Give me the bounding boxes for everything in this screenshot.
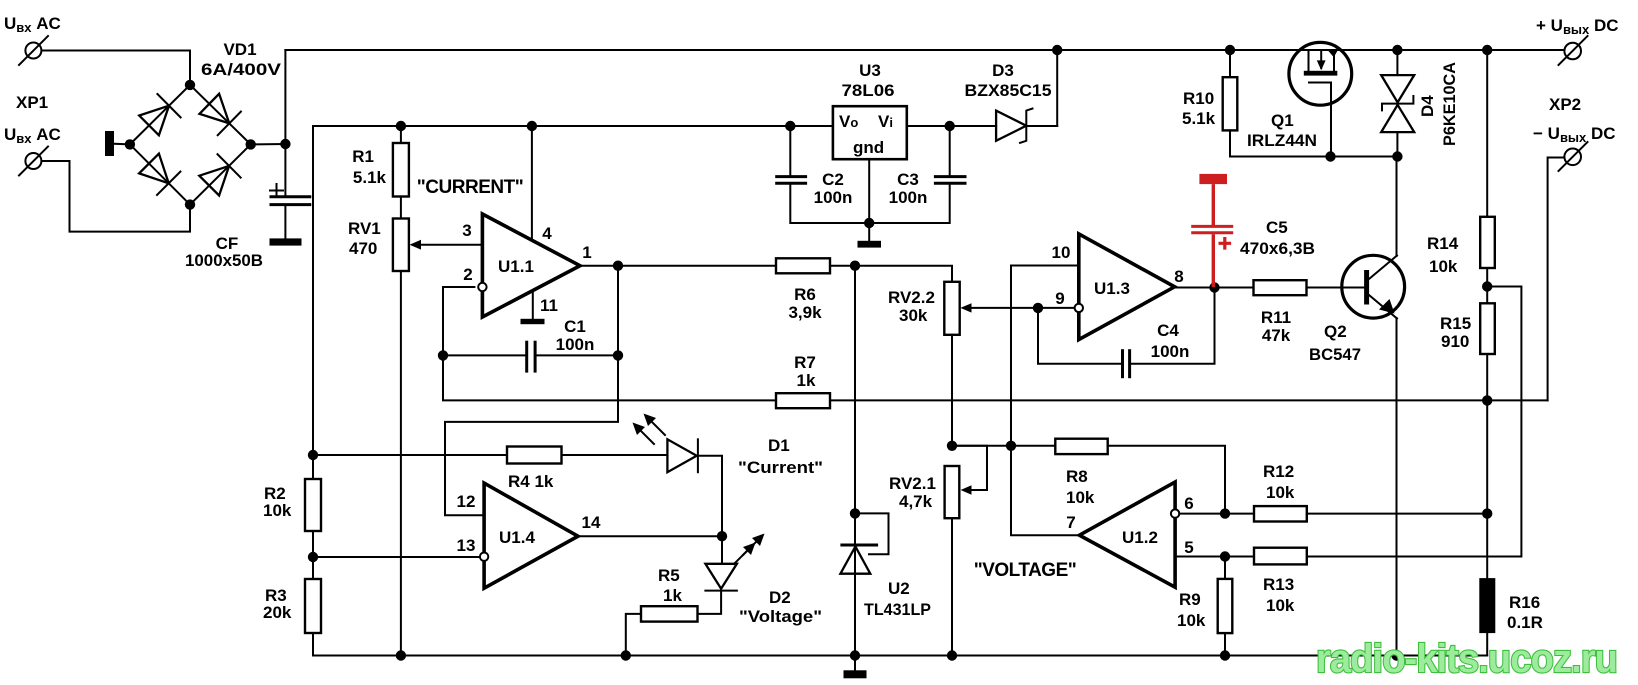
resistor R5 [626, 606, 698, 655]
svg-text:470: 470 [349, 239, 377, 258]
terminal bar at bridge left [105, 131, 114, 156]
U1.1 pin 11 stub and ground [521, 291, 545, 324]
svg-text:BZX85C15: BZX85C15 [965, 81, 1052, 100]
wire U1.1 output to R6 [580, 265, 776, 267]
svg-text:6: 6 [1184, 494, 1193, 513]
svg-text:R14: R14 [1427, 234, 1459, 253]
svg-text:470x6,3В: 470x6,3В [1240, 239, 1315, 258]
svg-text:5.1k: 5.1k [1182, 109, 1216, 128]
potentiometer RV2.2 [944, 282, 1038, 446]
junction RV1 at bottom rail [396, 650, 406, 660]
svg-text:U3: U3 [859, 61, 881, 80]
svg-text:radio-kits.ucoz.ru: radio-kits.ucoz.ru [1316, 637, 1617, 681]
junction R2 top [308, 450, 318, 460]
junction RV2.2 wiper / U1.3 pin9 [1033, 303, 1043, 313]
shunt resistor R16 (filled) [1479, 578, 1495, 655]
svg-text:2: 2 [463, 265, 472, 284]
svg-text:VD1: VD1 [223, 40, 256, 59]
MOSFET Q1 IRLZ44N [1289, 42, 1352, 156]
svg-text:Vo: Vo [839, 112, 858, 131]
potentiometer RV1 [393, 219, 421, 656]
wire U1.3 pin10 and riser to voltage-set node [1011, 266, 1079, 446]
wire RV1 wiper to U1.1 pin3 [418, 244, 482, 246]
svg-text:C4: C4 [1157, 321, 1179, 340]
junction pin6 node [1220, 508, 1230, 518]
svg-text:10k: 10k [1177, 611, 1206, 630]
svg-text:U1.4: U1.4 [499, 528, 535, 547]
svg-text:0.1R: 0.1R [1507, 613, 1543, 632]
connector XP1 pin 2 [19, 147, 48, 176]
junction R2/R3 [308, 552, 318, 562]
wire U1.2 pin5 to R13 [1175, 556, 1254, 558]
svg-text:Uвх AC: Uвх AC [4, 14, 61, 35]
junction RV2.1 top / voltage-set node [947, 441, 957, 451]
svg-text:C1: C1 [564, 317, 586, 336]
svg-text:XP2: XP2 [1549, 95, 1581, 114]
wire terminal bar to bridge left [114, 143, 126, 145]
wire bridge right to rail riser [251, 143, 286, 145]
wire R6 to RV2.2 top [830, 266, 952, 282]
svg-text:1k: 1k [797, 371, 816, 390]
VD1 diode (left-to-bottom) [139, 154, 180, 195]
shunt regulator U2 TL431 [840, 513, 888, 573]
TVS D4 P6KE10CA [1381, 50, 1414, 157]
wire divider tap to R13 [1307, 287, 1522, 557]
wire 78L06 gnd pin [868, 159, 870, 241]
resistor R11 [1254, 280, 1307, 295]
wire TL431 riser [854, 266, 856, 656]
svg-text:"VOLTAGE": "VOLTAGE" [974, 560, 1077, 581]
wire 78L06 Vi to D3 [907, 125, 996, 127]
svg-text:C3: C3 [897, 170, 919, 189]
svg-text:D2: D2 [769, 588, 791, 607]
wire U1.3 pin9 [1038, 307, 1075, 309]
wire pin2 node down to R7 line [443, 355, 776, 400]
capacitor C3 [869, 126, 966, 223]
junction U2 at bottom rail [850, 650, 860, 660]
junction D3 at top rail [1052, 45, 1062, 55]
svg-text:R6: R6 [794, 285, 816, 304]
capacitor C2 [775, 126, 869, 223]
wire R7 to output sense node [830, 399, 1548, 401]
svg-text:D1: D1 [768, 436, 790, 455]
resistor R2 [305, 455, 321, 557]
wire U1.1 pin2 loop [443, 287, 474, 355]
svg-text:6A/400V: 6A/400V [201, 60, 282, 79]
wire XP1 pin2 to bridge bottom [42, 161, 190, 232]
op-amp U1.4 [480, 483, 578, 588]
svg-text:100n: 100n [1151, 342, 1190, 361]
resistor R1 [393, 126, 409, 219]
wire D3 riser to top rail [1056, 50, 1058, 126]
svg-text:Vi: Vi [878, 112, 893, 131]
junction R1 top [396, 121, 406, 131]
wire R12 to current sense [1307, 513, 1487, 515]
wire R11 to Q2 base [1307, 287, 1365, 289]
junction R14 top rail [1482, 45, 1492, 55]
svg-text:R12: R12 [1263, 462, 1294, 481]
junction U1.2 pin7 riser [1006, 441, 1016, 451]
wire R4 to D1 [562, 454, 668, 456]
junction pin5 node [1220, 551, 1230, 561]
bridge rectifier VD1 [125, 80, 256, 210]
connector XP2 minus [1559, 142, 1588, 171]
VD1 diode (top-to-right) [200, 94, 241, 135]
VD1 diode (bottom-to-right) [199, 154, 240, 195]
svg-text:RV2.2: RV2.2 [888, 288, 935, 307]
svg-text:10: 10 [1052, 243, 1071, 262]
connector XP1 pin 1 [19, 36, 48, 65]
svg-text:RV2.1: RV2.1 [889, 474, 936, 493]
svg-text:P6KE10CA: P6KE10CA [1440, 62, 1459, 146]
junction R6 right / TL431 node [850, 261, 860, 271]
wire 6V rail (78L06 output rail) [313, 125, 833, 127]
ground (U2) [844, 656, 867, 679]
svg-text:R11: R11 [1261, 308, 1291, 327]
resistor R6 [776, 258, 830, 273]
wire U1.3 output to R11 [1175, 287, 1254, 289]
junction R15 bottom sense node [1482, 395, 1492, 405]
LED D1 "Current" [633, 414, 723, 537]
connector XP2 plus [1559, 36, 1588, 65]
wire riser to top rail [284, 50, 286, 144]
svg-text:R1: R1 [352, 147, 374, 166]
junction U1.1 pin4 rail [527, 121, 537, 131]
junction C3 top [945, 121, 955, 131]
junction D4 bottom / Q2 collector [1392, 151, 1402, 161]
svg-text:R15: R15 [1440, 314, 1471, 333]
wire gate line R10 to D4 bottom [1230, 156, 1397, 158]
junction bridge right [246, 139, 256, 149]
wire top rail [285, 49, 1564, 51]
resistor R14 [1480, 50, 1495, 303]
junction bridge left [125, 139, 135, 149]
svg-text:TL431LP: TL431LP [864, 600, 931, 619]
svg-text:R9: R9 [1179, 590, 1201, 609]
svg-text:10k: 10k [1429, 257, 1458, 276]
resistor R9 [1218, 557, 1233, 656]
wire U1.2 output pin7 [1011, 446, 1079, 535]
wire U1.1 output down-loop to U1.4 pin12 [445, 266, 618, 516]
svg-text:BC547: BC547 [1309, 345, 1361, 364]
svg-text:U1.3: U1.3 [1094, 279, 1130, 298]
junction TL431 ref [850, 508, 860, 518]
junction C1 right [613, 350, 623, 360]
resistor R13 [1254, 548, 1307, 565]
svg-text:5.1k: 5.1k [353, 168, 387, 187]
svg-text:7: 7 [1066, 513, 1075, 532]
resistor R15 [1480, 303, 1495, 578]
junction bridge bottom [185, 199, 195, 209]
wire R8 to U1.2 pin6 [1108, 446, 1225, 514]
svg-text:9: 9 [1055, 289, 1064, 308]
svg-text:20k: 20k [263, 603, 292, 622]
svg-text:U2: U2 [888, 579, 910, 598]
transistor Q2 BC547 [1342, 157, 1405, 656]
svg-text:IRLZ44N: IRLZ44N [1247, 131, 1317, 150]
wire U1.2 pin6 to R12 [1179, 513, 1254, 515]
wire U1.4 output [578, 535, 722, 537]
capacitor CF [270, 144, 312, 238]
svg-text:100n: 100n [889, 188, 928, 207]
svg-text:Q2: Q2 [1324, 322, 1347, 341]
junction D1/D2 node [717, 531, 727, 541]
svg-text:1: 1 [582, 243, 591, 262]
svg-text:R8: R8 [1066, 467, 1088, 486]
ground (CF) [270, 238, 302, 245]
potentiometer RV2.1 [945, 446, 987, 656]
junction R10 top rail [1225, 45, 1235, 55]
svg-text:R13: R13 [1263, 575, 1294, 594]
junction R5 at bottom rail [621, 650, 631, 660]
svg-text:D3: D3 [992, 61, 1014, 80]
zener D3 BZX85C15 [996, 109, 1057, 143]
resistor R4 [507, 447, 562, 464]
svg-text:D4: D4 [1418, 95, 1437, 117]
svg-text:1000x50В: 1000x50В [185, 251, 263, 270]
svg-text:R10: R10 [1183, 89, 1214, 108]
junction RV2.1 at bottom rail [947, 650, 957, 660]
svg-text:3: 3 [462, 221, 471, 240]
svg-text:1k: 1k [663, 586, 682, 605]
junction bridge top [185, 80, 195, 90]
svg-text:R7: R7 [794, 353, 816, 372]
resistor R8 [1055, 439, 1107, 454]
op-amp U1.1 [478, 214, 580, 317]
svg-text:47k: 47k [1262, 326, 1291, 345]
svg-text:RV1: RV1 [348, 219, 381, 238]
resistor R10 [1223, 50, 1238, 157]
svg-text:14: 14 [582, 513, 601, 532]
junction R9 at bottom rail [1220, 650, 1230, 660]
svg-text:C5: C5 [1266, 218, 1288, 237]
svg-text:11: 11 [540, 296, 558, 315]
svg-text:8: 8 [1174, 267, 1183, 286]
capacitor C5 (red) [1191, 174, 1233, 287]
svg-text:R4 1k: R4 1k [508, 472, 554, 491]
svg-text:10k: 10k [263, 501, 292, 520]
capacitor C1 [443, 341, 618, 373]
svg-text:C2: C2 [822, 170, 844, 189]
junction bridge output node [280, 139, 290, 149]
svg-text:Q1: Q1 [1271, 111, 1294, 130]
resistor R3 [305, 557, 1487, 656]
svg-text:5: 5 [1184, 538, 1193, 557]
svg-text:"Current": "Current" [738, 458, 823, 477]
regulator U3 78L06 [833, 106, 907, 159]
LED D2 "Voltage" [698, 534, 765, 614]
junction R14/R15 divider tap [1482, 281, 1492, 291]
op-amp U1.3 [1075, 234, 1175, 340]
svg-text:10k: 10k [1066, 488, 1095, 507]
ground (U3) [858, 241, 882, 248]
svg-text:U1.2: U1.2 [1122, 528, 1158, 547]
svg-text:R16: R16 [1509, 593, 1540, 612]
svg-text:12: 12 [457, 492, 476, 511]
junction C1 left [438, 350, 448, 360]
svg-text:R5: R5 [658, 566, 680, 585]
wire XP1 pin1 to bridge top [42, 51, 190, 85]
resistor R12 [1254, 506, 1307, 521]
wire U1.1 pin4 from rail [531, 126, 533, 241]
svg-text:910: 910 [1441, 332, 1469, 351]
svg-text:XP1: XP1 [16, 93, 48, 112]
svg-text:100n: 100n [814, 188, 853, 207]
svg-text:4: 4 [542, 224, 552, 243]
junction R12 right [1482, 508, 1492, 518]
svg-text:3,9k: 3,9k [788, 303, 822, 322]
junction U1.1 output [613, 261, 623, 271]
VD1 diode (left-to-top) [139, 94, 180, 135]
svg-text:30k: 30k [899, 306, 928, 325]
junction Q1 gate [1325, 151, 1335, 161]
wire XP2 minus to sense line [1548, 158, 1565, 401]
svg-text:10k: 10k [1266, 596, 1295, 615]
svg-text:10k: 10k [1266, 483, 1295, 502]
capacitor C4 feedback [1038, 288, 1215, 379]
junction Q2 emitter at bottom rail [1391, 650, 1401, 660]
op-amp U1.2 (mirrored) [1079, 482, 1179, 587]
svg-text:100n: 100n [556, 335, 595, 354]
wire R4 line from R2 top [313, 454, 507, 456]
junction gnd node [864, 218, 874, 228]
wire 6V rail left drop to R2 chain [312, 126, 314, 455]
wire R2/R3 node to U1.4 pin13 [313, 556, 479, 558]
resistor R7 [776, 393, 830, 408]
svg-text:4,7k: 4,7k [899, 492, 933, 511]
svg-text:13: 13 [457, 536, 476, 555]
svg-text:78L06: 78L06 [842, 81, 895, 100]
junction C2 top [785, 121, 795, 131]
svg-text:gnd: gnd [853, 138, 884, 157]
svg-text:U1.1: U1.1 [498, 257, 534, 276]
junction U1.3 output / C5 [1209, 282, 1219, 292]
wire voltage-set node to R8 [952, 445, 1055, 447]
svg-text:"CURRENT": "CURRENT" [417, 177, 523, 198]
svg-text:"Voltage": "Voltage" [739, 607, 822, 626]
junction D4 top rail [1392, 45, 1402, 55]
svg-text:Uвх AC: Uвх AC [4, 125, 61, 146]
